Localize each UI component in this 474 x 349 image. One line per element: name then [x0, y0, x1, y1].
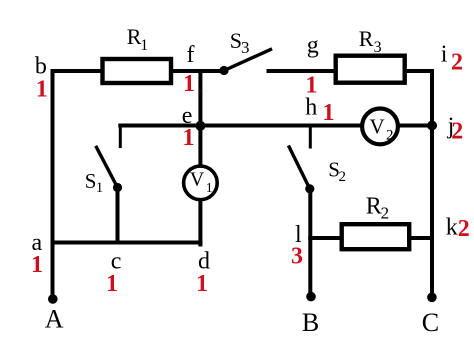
switch S1 pivot dot	[113, 183, 122, 192]
voltmeter V1	[184, 166, 218, 200]
wire V2 to j	[398, 124, 433, 128]
wire left vertical b to A	[51, 71, 55, 297]
resistor R3	[336, 56, 405, 83]
svg-text:1: 1	[106, 271, 118, 297]
wire right vertical j to C	[430, 126, 434, 297]
resistor R2	[342, 224, 410, 249]
svg-text:3: 3	[374, 39, 382, 56]
svg-text:b: b	[35, 53, 47, 79]
svg-text:V: V	[190, 168, 205, 190]
svg-text:1: 1	[96, 180, 104, 196]
wire R3 to top-right corner	[405, 71, 432, 126]
junction dot e	[195, 121, 205, 131]
svg-text:2: 2	[386, 128, 394, 144]
terminal B dot	[306, 292, 316, 302]
svg-text:1: 1	[323, 100, 335, 126]
wire f vertical f to V1 top	[198, 71, 202, 166]
svg-text:S: S	[85, 169, 97, 193]
wire S3 fixed contact to R3	[269, 69, 336, 73]
svg-text:2: 2	[451, 119, 463, 145]
svg-text:1: 1	[306, 73, 318, 99]
svg-text:3: 3	[291, 243, 303, 269]
switch S1 blade	[97, 147, 118, 187]
switch S3 blade	[224, 50, 271, 71]
wire S1 pivot down to c	[116, 188, 120, 243]
svg-text:R: R	[359, 26, 374, 51]
svg-text:g: g	[307, 32, 319, 58]
wire S1 fixed contact stub	[119, 126, 122, 147]
switch S3 pivot dot	[219, 66, 228, 75]
svg-text:2: 2	[381, 204, 390, 223]
resistor R1	[103, 59, 172, 83]
svg-text:1: 1	[196, 271, 208, 297]
svg-text:h: h	[305, 95, 317, 121]
svg-text:k: k	[446, 215, 458, 241]
terminal C dot	[427, 293, 437, 303]
wire middle rail e to V2	[120, 124, 361, 128]
switch S2 pivot dot	[305, 184, 314, 193]
wire l to R2	[310, 236, 341, 240]
svg-text:B: B	[302, 308, 319, 337]
junction dot j	[427, 121, 437, 131]
svg-text:C: C	[422, 308, 439, 337]
svg-text:R: R	[366, 194, 382, 220]
switch S2 blade	[289, 147, 310, 189]
svg-text:3: 3	[241, 38, 250, 57]
wire bottom rail a to d	[53, 241, 201, 245]
svg-text:2: 2	[339, 169, 347, 185]
svg-text:2: 2	[451, 49, 463, 75]
wire R1 to S3 pivot	[171, 69, 224, 73]
wire S2 pivot down to B	[308, 189, 312, 294]
svg-text:1: 1	[206, 181, 213, 196]
wire b to R1	[53, 69, 103, 73]
svg-text:1: 1	[36, 77, 48, 103]
wire R2 to k	[410, 236, 432, 240]
svg-text:1: 1	[183, 125, 195, 151]
svg-text:1: 1	[31, 252, 43, 278]
svg-text:i: i	[441, 42, 448, 68]
svg-text:1: 1	[183, 71, 195, 97]
svg-text:V: V	[370, 115, 385, 139]
svg-text:1: 1	[140, 37, 148, 54]
wire S2 fixed contact stub	[309, 126, 312, 148]
terminal A dot	[48, 294, 58, 304]
svg-text:A: A	[45, 305, 64, 334]
svg-text:f: f	[187, 42, 195, 68]
voltmeter V2	[362, 109, 398, 145]
svg-text:2: 2	[458, 216, 470, 242]
wire V1 bottom to d	[198, 201, 202, 245]
